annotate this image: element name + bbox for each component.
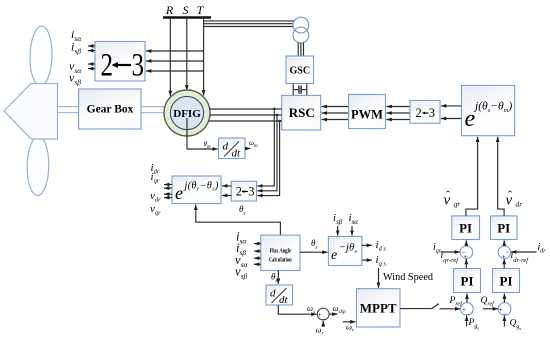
svg-text:id s: id s: [376, 239, 387, 253]
svg-text:vdr: vdr: [150, 190, 161, 204]
svg-text:Gear Box: Gear Box: [87, 104, 134, 116]
turbine hub: [4, 84, 58, 140]
wire dc link: [292, 84, 294, 96]
turbine blade bottom: [27, 136, 50, 195]
svg-text:ˆ: ˆ: [446, 188, 450, 202]
summer iq: [460, 246, 473, 259]
wire e to 2to3 b: [441, 118, 462, 120]
block d/dt flux: [266, 285, 293, 305]
controller PI P: [454, 269, 481, 293]
svg-text:isα: isα: [349, 212, 359, 226]
svg-text:+: +: [464, 253, 468, 261]
wire pwm 2to3 c: [386, 119, 410, 121]
svg-text:ωr: ωr: [316, 325, 324, 337]
turbine blade top: [29, 26, 53, 86]
wire theta_s to exp: [300, 251, 328, 253]
wire stator tap 1: [146, 50, 204, 52]
svg-text:MPPT: MPPT: [360, 301, 397, 316]
wire i_ds out: [362, 244, 372, 246]
svg-text:RSC: RSC: [289, 105, 315, 120]
wire p_ref: [440, 308, 461, 310]
switch: [432, 304, 439, 309]
block PWM: [349, 95, 386, 129]
svg-text:2: 2: [416, 106, 422, 120]
summer slip: [317, 308, 329, 320]
wire idr-ref: [503, 259, 505, 269]
block exp jtr-ts: [172, 176, 221, 204]
wire rotor a: [209, 108, 282, 110]
controller PI vq: [452, 216, 480, 240]
wire tap c down: [257, 121, 279, 196]
turbine shaft: [56, 107, 166, 113]
wire e to 2to3 a: [441, 105, 462, 107]
wire grid feed 3: [204, 26, 294, 28]
block exp -jts: [328, 237, 362, 266]
svg-text:2: 2: [236, 185, 242, 199]
bus bar: [163, 16, 211, 19]
svg-text:ωm: ωm: [249, 139, 258, 149]
wire exp outputs: [164, 184, 172, 186]
summer P: [461, 303, 474, 316]
svg-text:Wind Speed: Wind Speed: [383, 271, 433, 283]
block 2to3 rotor: [231, 181, 256, 201]
wire transformer to GSC: [297, 43, 299, 56]
svg-text:Calculation: Calculation: [269, 256, 292, 263]
wire phase T vertical: [203, 18, 205, 96]
wire phase R vertical: [169, 18, 171, 96]
wire v out arrows: [88, 63, 95, 65]
svg-text:ωs: ωs: [307, 303, 315, 315]
svg-text:iq s: iq s: [376, 254, 387, 268]
svg-text:3: 3: [132, 48, 145, 84]
summer id: [498, 246, 511, 259]
wire Q_g: [503, 316, 505, 327]
svg-text:iqr: iqr: [433, 242, 442, 255]
wire phase S vertical: [186, 18, 188, 91]
wire omega_m out: [245, 148, 251, 150]
svg-text:S: S: [183, 3, 189, 17]
transformer: [293, 17, 309, 33]
wire rsc pwm c: [322, 119, 349, 121]
wire vqr up: [466, 137, 478, 216]
svg-text:GSC: GSC: [290, 66, 311, 77]
wire omega_slip: [329, 313, 337, 315]
svg-text:PI: PI: [497, 221, 510, 236]
converter RSC: [282, 95, 321, 130]
wire wind speed: [378, 268, 380, 288]
capacitor dc link: [298, 86, 300, 94]
svg-text:isβ: isβ: [333, 212, 343, 226]
svg-text:PI: PI: [500, 274, 513, 289]
wire flux inputs: [254, 243, 261, 245]
node tap b: [276, 114, 279, 117]
wire Q sum to PI: [503, 294, 505, 303]
wire omega_r into slip: [322, 321, 324, 327]
svg-text:PI: PI: [459, 221, 472, 236]
wire rsc pwm a: [322, 106, 349, 108]
svg-text:T: T: [197, 3, 205, 17]
svg-text:d: d: [223, 141, 229, 153]
svg-text:dt: dt: [279, 294, 289, 306]
block 2to3 pwm: [410, 101, 440, 124]
block 2to3 stator: [95, 42, 145, 82]
svg-text:θs: θs: [311, 238, 318, 251]
svg-text:3: 3: [429, 106, 435, 120]
wire P_g: [466, 316, 468, 327]
wire pwm 2to3 a: [386, 106, 410, 108]
wire stator tap 2: [146, 60, 204, 62]
svg-text:vqr: vqr: [150, 203, 161, 217]
svg-text:Qref: Qref: [481, 296, 496, 308]
wire tap b down: [257, 115, 277, 191]
wire omega_r to mppt: [343, 321, 356, 323]
node tap a: [273, 108, 276, 111]
wire i_qs out: [362, 259, 372, 261]
block MPPT: [356, 289, 400, 327]
wire i out arrows: [88, 45, 95, 47]
wire 2to3 to exp a: [222, 185, 231, 187]
wire vdr up: [498, 137, 504, 216]
wire rsc pwm b: [322, 112, 349, 114]
svg-text:dr: dr: [516, 200, 523, 209]
wire i_salpha in: [351, 226, 353, 236]
svg-text:d: d: [270, 288, 276, 300]
svg-text:PI: PI: [461, 274, 474, 289]
svg-text:idr: idr: [538, 242, 547, 255]
wire theta_s down: [277, 271, 279, 284]
wire id sum to PI: [503, 240, 505, 245]
svg-text:PWM: PWM: [351, 108, 383, 122]
wire theta_m: [186, 118, 188, 149]
wire tap a down: [257, 109, 274, 186]
wire grid feed 1: [204, 20, 295, 22]
svg-text:R: R: [165, 3, 174, 17]
wire iq sum to PI: [465, 240, 467, 245]
svg-text:3: 3: [248, 185, 254, 199]
wire iqr-ref: [465, 259, 467, 269]
svg-text:2: 2: [101, 48, 114, 84]
controller PI vd: [491, 216, 518, 240]
wire 2to3 to exp b: [222, 195, 231, 197]
svg-text:θs: θs: [271, 272, 278, 285]
wire pwm 2to3 b: [386, 112, 410, 114]
svg-text:Flux Angle: Flux Angle: [269, 247, 291, 254]
block exp jts-tm: [462, 85, 515, 135]
wire grid feed 2: [204, 23, 294, 25]
svg-text:+: +: [502, 253, 506, 261]
svg-text:Qgs: Qgs: [510, 319, 522, 332]
svg-text:Pgs: Pgs: [468, 318, 480, 331]
svg-text:ˆ: ˆ: [508, 188, 512, 202]
svg-text:ωr: ωr: [346, 322, 354, 334]
svg-text:ωslip: ωslip: [333, 303, 347, 315]
wire i_sbeta in: [337, 226, 339, 236]
svg-text:θs: θs: [239, 204, 246, 217]
wire i_dr in: [511, 251, 537, 253]
generator DFIG: [164, 90, 210, 136]
wire i_qr in: [441, 251, 460, 253]
wire rotor b: [210, 114, 282, 116]
svg-text:e: e: [331, 248, 337, 263]
converter GSC: [286, 56, 314, 84]
wire P sum to PI: [466, 294, 468, 303]
wire rotor c: [209, 120, 282, 122]
svg-text:−: −: [505, 248, 509, 257]
wire theta_s feed: [196, 205, 281, 236]
wire stator tap 3: [146, 70, 204, 72]
gearbox: [79, 89, 141, 129]
wire mppt out: [400, 308, 432, 310]
summer Q: [498, 303, 511, 316]
node tap c: [278, 120, 281, 123]
svg-text:e: e: [175, 183, 183, 203]
wire omega_s: [278, 305, 316, 314]
svg-text:e: e: [465, 106, 476, 132]
block flux angle calculation: [261, 235, 300, 270]
svg-text:dt: dt: [232, 148, 242, 160]
svg-text:qr: qr: [454, 200, 461, 209]
controller PI Q: [493, 269, 520, 293]
wire q_ref: [483, 308, 498, 310]
block d/dt speed: [219, 138, 246, 159]
